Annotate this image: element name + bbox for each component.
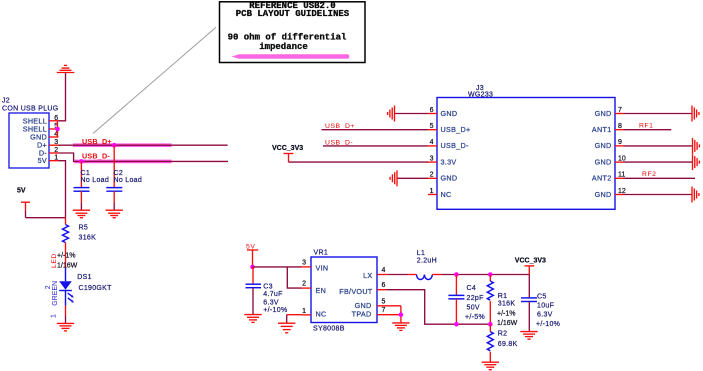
svg-text:TPAD: TPAD (352, 310, 372, 319)
J3 right pin numbers (618, 107, 626, 195)
regulator VR1 SY8008B (311, 257, 377, 323)
svg-text:6.3V: 6.3V (537, 312, 553, 319)
svg-text:WG233: WG233 (468, 92, 493, 99)
svg-text:VIN: VIN (316, 264, 329, 273)
svg-text:4: 4 (430, 139, 434, 146)
svg-text:No Load: No Load (114, 177, 143, 184)
power symbol 5V (J2 area) (17, 188, 30, 218)
resistor R5 (63, 218, 97, 269)
junction C4 bottom (454, 322, 459, 327)
junction R1 top (488, 272, 493, 277)
wire J3 pin12 (624, 194, 692, 196)
svg-text:5: 5 (430, 123, 434, 130)
ground C5 (520, 332, 537, 340)
svg-text:1: 1 (302, 308, 306, 315)
J3 right pin stubs (615, 114, 624, 195)
J3 left pin stubs (428, 114, 437, 195)
svg-text:1/16W: 1/16W (497, 320, 518, 327)
svg-text:6: 6 (382, 282, 386, 289)
power symbol VCC_3V3 (right) (515, 257, 546, 274)
J3 right pin names (592, 109, 612, 199)
svg-text:ANT2: ANT2 (592, 174, 612, 183)
wire J3 pin10 (624, 161, 693, 163)
J2 pin numbers (54, 115, 58, 162)
wire USB_D- net (59, 153, 229, 161)
ground C3 (244, 315, 261, 323)
USB_D- highlight (74, 160, 171, 164)
wire ground to J2 pin6 (59, 73, 66, 121)
svg-text:GND: GND (355, 301, 372, 310)
svg-text:GND: GND (595, 109, 612, 118)
svg-text:USB_D-: USB_D- (441, 141, 469, 150)
svg-text:FB/VOUT: FB/VOUT (339, 287, 373, 296)
J2 pin stubs (49, 121, 59, 161)
svg-text:CON USB PLUG: CON USB PLUG (2, 105, 59, 112)
svg-text:RF2: RF2 (642, 171, 657, 178)
wire LX to L1 (387, 274, 408, 276)
svg-text:22pF: 22pF (467, 295, 484, 302)
junction shell (55, 127, 60, 132)
svg-text:5V: 5V (246, 243, 255, 250)
svg-text:R1: R1 (498, 293, 508, 300)
ground C2 (106, 210, 123, 218)
svg-text:GND: GND (441, 174, 458, 183)
svg-text:1/16W: 1/16W (57, 262, 78, 269)
svg-text:+/-10%: +/-10% (263, 307, 287, 314)
svg-text:+/-1%: +/-1% (57, 253, 75, 260)
wire J3 pin9 (624, 145, 693, 147)
wire 5V net from pin1 (59, 161, 66, 218)
IC J3 WG233 (437, 98, 615, 210)
wire VCC_3V3 to J3 pin3 (289, 161, 429, 163)
svg-text:12: 12 (618, 188, 626, 195)
junction C1/D- (79, 159, 84, 164)
callout leader line (93, 27, 216, 133)
svg-text:J2: J2 (2, 98, 10, 105)
capacitor C1 (74, 161, 110, 210)
svg-text:4: 4 (382, 267, 386, 274)
ground TPAD (392, 323, 409, 331)
junction C4 top (454, 272, 459, 277)
svg-text:316K: 316K (498, 301, 516, 308)
svg-text:316K: 316K (79, 234, 97, 241)
wire FB/VOUT feedback (387, 290, 491, 325)
junction 5V/C3/VIN (250, 265, 255, 270)
svg-text:5V: 5V (38, 156, 47, 165)
power symbol VCC_3V3 (mid) (272, 145, 303, 162)
J2 pin names (23, 116, 48, 165)
ground (sideways left) at J3 pin6 (388, 106, 395, 122)
svg-text:3: 3 (302, 259, 306, 266)
svg-text:69.8K: 69.8K (498, 341, 518, 348)
svg-text:1: 1 (50, 314, 57, 318)
svg-text:EN: EN (316, 286, 327, 295)
svg-text:1: 1 (430, 188, 434, 195)
svg-text:GND: GND (441, 109, 458, 118)
wire J3 pin8 RF1 (624, 129, 672, 131)
ground (sideways left) at J3 pin2 (390, 170, 397, 186)
svg-text:LX: LX (363, 271, 372, 280)
shell tie wire (57, 121, 59, 137)
svg-text:GREEN: GREEN (52, 281, 59, 306)
svg-text:R2: R2 (498, 330, 508, 337)
USB_D+ highlight (73, 143, 172, 147)
power symbol 5V (VR1 area) (246, 243, 258, 267)
svg-text:+/-5%: +/-5% (465, 314, 485, 321)
capacitor C4 (448, 275, 485, 325)
svg-text:9: 9 (618, 139, 622, 146)
svg-text:2: 2 (45, 285, 52, 289)
svg-text:C5: C5 (537, 293, 547, 300)
junction R1/R2 (488, 322, 493, 327)
svg-text:6.3V: 6.3V (263, 299, 279, 306)
ground (sideways right) at pin10 (693, 154, 700, 170)
svg-text:GND: GND (595, 141, 612, 150)
note box REFERENCE USB2.0 PCB LAYOUT GUIDELINES (220, 1, 366, 62)
highlight bar in note box (232, 54, 350, 59)
svg-text:C1: C1 (81, 170, 91, 177)
svg-text:C2: C2 (114, 170, 124, 177)
wire USB_D+ to J3 pin5 (322, 129, 429, 131)
svg-text:+/-10%: +/-10% (536, 321, 560, 328)
svg-text:VCC_3V3: VCC_3V3 (272, 145, 303, 152)
wire J3 pin2 to ground (397, 177, 428, 179)
svg-text:3: 3 (430, 155, 434, 162)
wire NC to ground (287, 314, 302, 316)
wire LED to ground (65, 306, 67, 317)
ground R2 (482, 362, 499, 370)
svg-text:SY8008B: SY8008B (313, 325, 345, 332)
ground LED (57, 323, 74, 331)
capacitor C5 (521, 275, 560, 332)
junction TPAD (399, 312, 404, 317)
svg-text:impedance: impedance (259, 42, 308, 52)
junction C2/D+ (112, 143, 117, 148)
svg-text:GND: GND (595, 190, 612, 199)
svg-text:5V: 5V (17, 188, 26, 195)
svg-text:C4: C4 (467, 285, 477, 292)
wire GND/TPAD tie (400, 306, 402, 323)
capacitor C2 (106, 145, 142, 210)
svg-text:GND: GND (595, 157, 612, 166)
svg-text:7: 7 (382, 307, 386, 314)
resistor R2 (487, 324, 517, 362)
svg-text:7: 7 (618, 107, 622, 114)
ground (inverted, above J2) (57, 65, 75, 72)
svg-text:6: 6 (430, 107, 434, 114)
VR1 pin stubs (302, 267, 401, 315)
wire 5V symbol to net (26, 217, 66, 219)
wire USB_D+ net (59, 144, 228, 146)
wire branch to EN (287, 267, 301, 288)
svg-text:+/-1%: +/-1% (497, 311, 515, 318)
svg-text:No Load: No Load (81, 177, 110, 184)
svg-text:PCB LAYOUT GUIDELINES: PCB LAYOUT GUIDELINES (236, 9, 350, 19)
svg-text:VR1: VR1 (314, 250, 329, 257)
svg-text:2: 2 (430, 172, 434, 179)
inductor L1 2.2uH (417, 250, 437, 279)
svg-text:8: 8 (618, 123, 622, 130)
svg-text:50V: 50V (467, 305, 480, 312)
svg-text:USB_D-: USB_D- (82, 152, 110, 161)
VR1 pin numbers (302, 259, 306, 315)
ground (sideways right) at pin7 (692, 106, 699, 122)
capacitor C3 (246, 267, 288, 315)
svg-text:NC: NC (316, 310, 327, 319)
svg-text:10uF: 10uF (537, 303, 554, 310)
svg-text:RF1: RF1 (639, 122, 654, 129)
svg-text:USB_D+: USB_D+ (325, 123, 355, 130)
ground NC (278, 323, 295, 333)
svg-text:ANT1: ANT1 (592, 125, 612, 134)
ground (sideways right) at pin12 (692, 187, 699, 203)
connector J2 CON USB PLUG (9, 113, 49, 168)
svg-text:USB_D-: USB_D- (325, 139, 353, 146)
svg-text:USB_D+: USB_D+ (82, 137, 112, 146)
wire J3 pin11 RF2 (624, 177, 696, 179)
J3 left pin names (441, 109, 471, 199)
svg-text:3.3V: 3.3V (441, 157, 457, 166)
svg-text:C190GKT: C190GKT (79, 285, 113, 292)
wire L1 to output rail (432, 274, 441, 276)
VR1 pin names (316, 264, 329, 319)
svg-text:5: 5 (382, 298, 386, 305)
wire J3 pin6 to ground (395, 113, 429, 115)
J3 left pin numbers (430, 107, 434, 195)
svg-text:11: 11 (618, 172, 625, 179)
wire J3 pin7 (624, 113, 692, 115)
svg-text:DS1: DS1 (77, 274, 92, 281)
svg-text:2.2uH: 2.2uH (417, 258, 437, 265)
svg-text:NC: NC (441, 190, 452, 199)
ground C1 (73, 210, 90, 218)
wire 5V to VIN (253, 266, 302, 268)
svg-text:USB_D+: USB_D+ (441, 125, 471, 134)
ground (sideways right) at pin9 (693, 138, 700, 154)
wire USB_D- to J3 pin4 (323, 145, 428, 147)
svg-text:4.7uF: 4.7uF (263, 291, 282, 298)
svg-text:R5: R5 (79, 225, 89, 232)
svg-text:L1: L1 (417, 250, 425, 257)
resistor R1 (487, 275, 517, 328)
svg-text:VCC_3V3: VCC_3V3 (515, 257, 546, 264)
svg-text:2: 2 (302, 281, 306, 288)
svg-text:10: 10 (618, 155, 626, 162)
svg-text:C3: C3 (263, 283, 273, 290)
LED DS1 (59, 268, 112, 306)
